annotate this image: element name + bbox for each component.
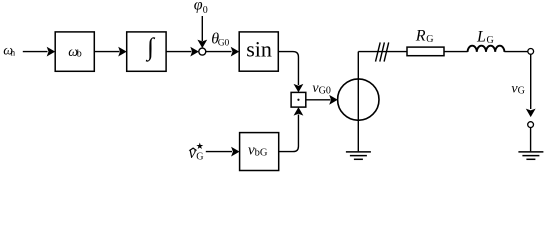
ground left [346, 152, 371, 159]
svg-text:0: 0 [203, 5, 208, 16]
svg-text:L: L [476, 29, 486, 46]
wire inductor to terminal [504, 51, 527, 53]
block sin [239, 32, 278, 71]
arrowhead down into multiplier [294, 84, 304, 93]
svg-text:n: n [11, 48, 16, 58]
arrowhead into summing node [190, 47, 199, 57]
source circle [338, 79, 379, 120]
wire phi0 down into summing node [201, 16, 203, 41]
svg-text:φ: φ [194, 0, 203, 14]
voltage arrow vG [530, 55, 532, 109]
wire resistor to inductor [444, 51, 468, 53]
ground right [518, 152, 543, 159]
block integrator [127, 32, 166, 71]
svg-text:G: G [518, 86, 525, 97]
summing node circle [199, 48, 206, 55]
wire input arrow into block ωb [23, 51, 48, 53]
block ωb [55, 32, 94, 71]
svg-text:G0: G0 [319, 85, 331, 96]
terminal bottom circle [528, 122, 534, 128]
wire terminal to ground [530, 128, 532, 152]
svg-text:bG: bG [255, 148, 268, 159]
block vbG [240, 133, 279, 171]
arrowhead into source circle [329, 95, 338, 105]
wire arrow summing node to sin block [206, 51, 232, 53]
svg-text:G0: G0 [218, 38, 230, 48]
wire sin output elbow down to multiplier [278, 52, 298, 85]
multiplier block [291, 92, 306, 107]
resistor RG [407, 47, 444, 56]
wire arrow ωb to integrator [94, 51, 119, 53]
wire vertical through source to ground [357, 52, 359, 152]
wire arrow integrator to summing node [166, 51, 191, 53]
svg-text:sin: sin [246, 37, 272, 62]
svg-text:G: G [487, 35, 494, 46]
svg-text:G: G [426, 34, 433, 45]
three-phase slash marks [376, 42, 389, 61]
multiplier dot [297, 99, 299, 101]
arrowhead into ωb [47, 47, 56, 57]
svg-text:∫: ∫ [145, 34, 155, 62]
wire top rail source to resistor [358, 51, 407, 53]
terminal top circle [528, 49, 534, 55]
arrowhead up into multiplier [294, 107, 304, 116]
arrowhead phi0 into summing node [197, 40, 207, 49]
svg-text:G: G [196, 152, 203, 163]
svg-text:R: R [415, 28, 426, 45]
svg-text:★: ★ [196, 141, 204, 151]
wire vbG output elbow up to multiplier [279, 115, 299, 152]
arrowhead into sin [231, 47, 240, 57]
arrowhead into vbG [231, 147, 240, 157]
svg-text:b: b [77, 49, 82, 60]
wire arrow vhat input to vbG block [206, 151, 232, 153]
wire arrow multiplier to source [306, 99, 331, 101]
arrowhead into integrator [118, 47, 127, 57]
inductor LG coil [468, 46, 505, 52]
